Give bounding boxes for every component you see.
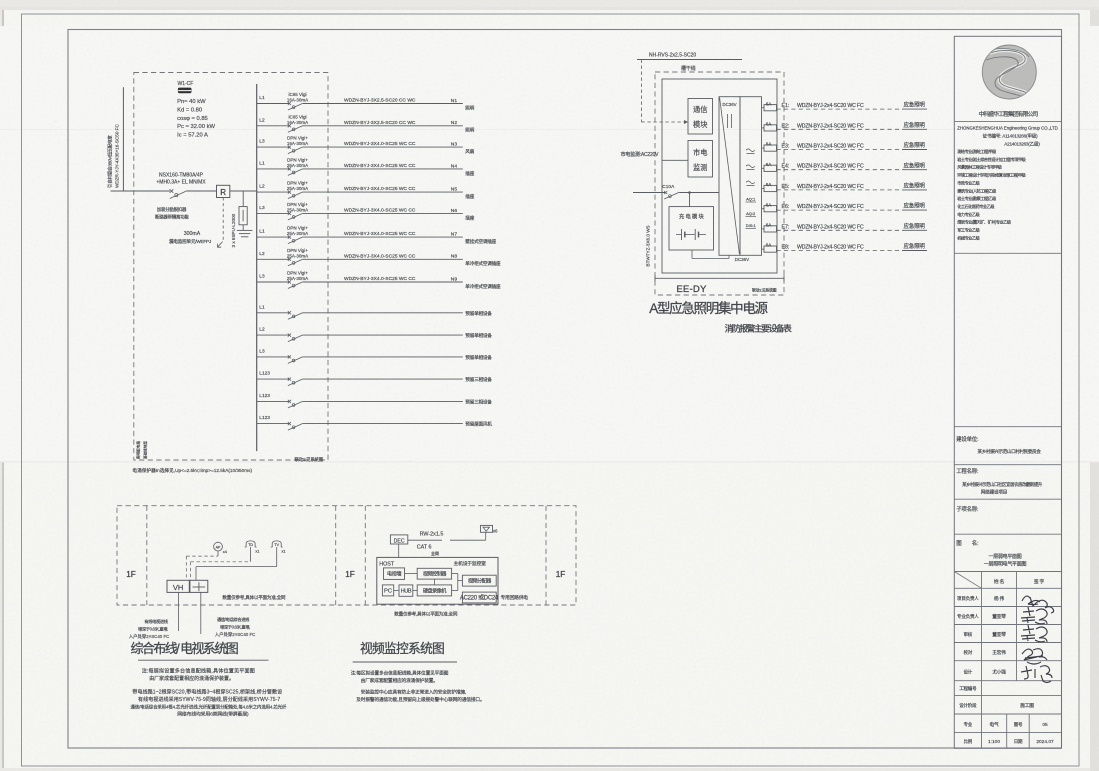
branch circuit row 4 wire [257, 158, 475, 177]
signature scribble 王宏伟 [1022, 649, 1047, 664]
branch circuit row 3 wire [257, 136, 475, 155]
camera symbol [481, 525, 493, 532]
camera wire [408, 539, 442, 541]
EE-DY enclosure dashed box [655, 72, 784, 295]
VH distribution box [167, 580, 189, 592]
busbar [256, 84, 258, 451]
TD outlet [245, 541, 257, 547]
decoder DEC box [390, 535, 407, 544]
branch breaker row 5 [288, 191, 291, 194]
branch circuit row 10 wire [257, 304, 493, 319]
host internal wires [405, 573, 418, 575]
charger module box [689, 193, 691, 207]
emergency output E6 wire [777, 209, 903, 211]
PC box [382, 585, 393, 596]
emergency output E7 fuse [762, 222, 928, 232]
video distributor box [462, 575, 496, 586]
branch circuit row 11 wire [257, 327, 493, 342]
emergency output E2 wire [777, 128, 903, 130]
branch circuit row 2 wire [257, 114, 475, 133]
branch breaker row 8 [288, 258, 291, 261]
branch breaker row 9 [288, 280, 291, 283]
emergency output E4 wire [777, 169, 903, 171]
emergency output E4 fuse [762, 161, 928, 171]
emergency output E5 fuse [762, 182, 928, 192]
panel dashed box bottom notes [136, 441, 141, 459]
branch breaker row 14 [288, 400, 291, 403]
AP outlet [214, 542, 223, 551]
signature scribble 董亚琴1 [1021, 607, 1047, 624]
signature table [981, 572, 983, 696]
branch circuit row 1 wire [257, 92, 475, 111]
emergency output E3 fuse [762, 141, 928, 151]
battery cells [676, 234, 681, 236]
DVR box [417, 585, 451, 596]
ground symbol [237, 229, 253, 231]
mains monitor box [688, 141, 713, 178]
branch circuit row 9 wire [257, 271, 501, 290]
branch breaker row 13 [288, 378, 291, 381]
branch circuit row 14 wire [257, 393, 493, 408]
signature scribble 董亚琴2 [1021, 625, 1047, 642]
emergency output E6 fuse [762, 202, 928, 212]
branch circuit row 12 wire [257, 349, 493, 364]
signature scribble 尤小强 [1021, 666, 1052, 683]
branch circuit row 7 wire [257, 226, 497, 245]
HOST cabinet box [377, 557, 498, 604]
wire R to busbar [230, 190, 257, 192]
incoming feeder riser wire [122, 87, 124, 191]
EE-DY designation separator [655, 277, 784, 279]
cabinet cable label BTWTYZ [646, 225, 651, 266]
R trip linkage dashed [222, 198, 224, 242]
branch circuit row 15 wire [257, 415, 493, 430]
emergency output E1 fuse [762, 101, 928, 111]
TV wall box [384, 568, 405, 580]
branch breaker row 3 [288, 146, 291, 149]
panel AL enclosure dashed box [134, 73, 328, 461]
DEC to HOST wire [398, 544, 400, 557]
branch breaker row 10 [288, 311, 291, 314]
branch circuit row 5 wire [257, 181, 475, 200]
branch breaker row 11 [288, 334, 291, 337]
dashed link to communication module [640, 60, 642, 123]
residual current relay R [217, 185, 230, 197]
branch breaker row 7 [288, 236, 291, 239]
emergency output E3 wire [777, 149, 903, 151]
branch circuit row 6 wire [257, 202, 475, 221]
video controller box [417, 568, 451, 579]
branch breaker row 2 [288, 124, 291, 127]
company logo [982, 45, 1036, 99]
surge protector FV 3x6SPU-L2000 [239, 207, 247, 225]
emergency output E2 fuse [762, 121, 928, 131]
EE-DY inner cabinet box [662, 79, 777, 273]
branch breaker row 12 [288, 355, 291, 358]
branch breaker row 6 [288, 212, 291, 215]
AC power label box [462, 592, 496, 603]
service entrance lines [178, 592, 180, 631]
floor band dashed box [117, 506, 576, 605]
branch circuit row 13 wire [257, 371, 493, 386]
amplifier box [190, 580, 208, 592]
inverter box [719, 97, 740, 256]
branch breaker row 15 [288, 422, 291, 425]
emergency output E8 fuse [762, 242, 928, 252]
feeder label WDZR-YJY-4X35+16-SC50-FC [107, 135, 114, 188]
connection charger to inverter bottom [691, 250, 693, 259]
branch breaker row 1 [288, 102, 291, 105]
emergency output E7 wire [777, 229, 903, 231]
discipline row [1006, 714, 1008, 748]
signature scribble 杨伟 [1022, 596, 1054, 613]
main breaker QF NSX160 [170, 189, 174, 193]
fire bus wire [637, 59, 742, 61]
title block outline [954, 36, 1061, 748]
emergency output E5 wire [777, 189, 903, 191]
HUB box [399, 585, 413, 596]
communication module box [688, 99, 713, 135]
TV outlet [271, 541, 283, 547]
surge protector FV tap wire [242, 191, 244, 207]
emergency output E1 wire [777, 108, 903, 110]
output module box [740, 97, 762, 256]
branch breaker row 4 [288, 167, 291, 170]
emergency output E8 wire [777, 250, 903, 252]
branch circuit row 8 wire [257, 248, 501, 267]
